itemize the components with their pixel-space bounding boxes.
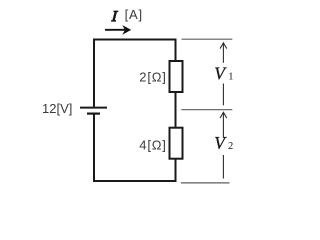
wire: segment between resistor R1 and resistor R2 [175,92,177,129]
svg-text:12[V]: 12[V] [42,101,72,116]
voltage arrow V1 (across R1, pointing up) [220,43,227,106]
leader line: top node reference (aligned with top wire) [182,38,233,40]
svg-text:1: 1 [228,72,233,83]
voltage arrow V2 (across R2, pointing up) [220,112,227,178]
label: current I [A] [111,11,118,22]
battery E 12[V]: long positive plate [80,107,107,109]
resistor R1 (2 ohm) body [170,61,183,92]
svg-text:2[Ω]: 2[Ω] [139,69,166,84]
wire: resistor R2 bottom down to bottom-right corner, across bottom, up to battery negative terminal [94,114,176,181]
wire: battery positive terminal up to top-left corner, across top, down to resistor R1 top [94,40,176,107]
resistor R2 (4 ohm) body [170,128,183,159]
svg-text:2: 2 [228,141,233,152]
battery E 12[V]: short negative plate [87,112,100,114]
svg-text:4[Ω]: 4[Ω] [139,137,166,152]
leader line: middle node reference (between R1 and R2) [181,109,232,111]
svg-text:[A]: [A] [125,7,143,22]
current arrow I (direction of current along top wire) [105,25,131,35]
leader line: bottom node reference (aligned with bottom wire) [181,182,230,184]
